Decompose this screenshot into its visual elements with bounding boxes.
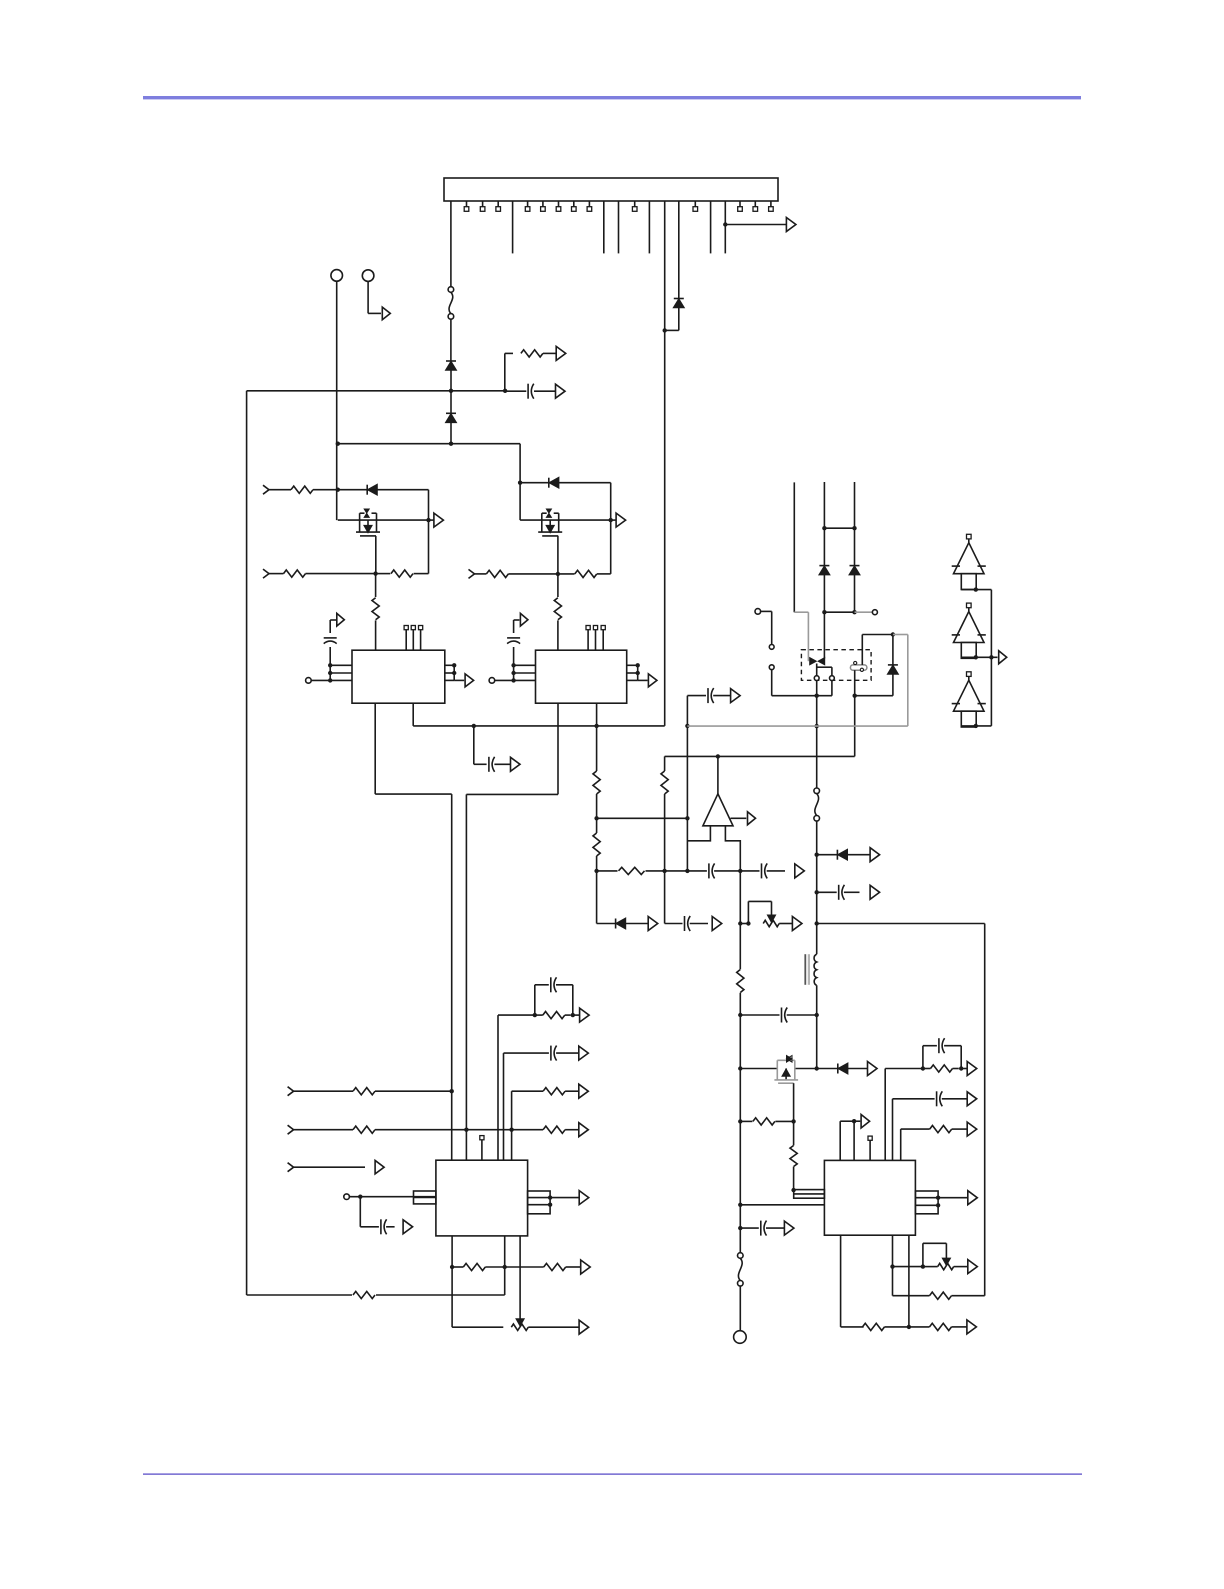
wire bbox=[596, 703, 598, 726]
terminal bbox=[489, 678, 495, 684]
node bbox=[746, 921, 750, 925]
wire bbox=[412, 703, 414, 726]
off-page connector arrow bbox=[556, 346, 566, 360]
wire bbox=[823, 482, 825, 566]
wire bbox=[428, 520, 430, 574]
wire bbox=[450, 422, 452, 443]
wire bbox=[625, 923, 648, 925]
wire bbox=[528, 1326, 579, 1328]
resistor R3 bbox=[291, 486, 313, 493]
off-page connector arrow bbox=[968, 1191, 978, 1205]
fuse F1 bbox=[448, 287, 454, 293]
wire bbox=[376, 573, 391, 575]
wire bbox=[922, 1046, 924, 1069]
wire bbox=[923, 1068, 931, 1070]
node bbox=[636, 663, 640, 667]
capacitor C12 bbox=[936, 1091, 938, 1106]
node bbox=[518, 481, 522, 485]
capacitor C14 bbox=[550, 977, 552, 992]
header rule bbox=[143, 96, 1081, 99]
node bbox=[959, 1066, 963, 1070]
node bbox=[852, 1119, 856, 1123]
buffer U6B bbox=[967, 603, 972, 608]
bus wire bbox=[451, 794, 453, 1160]
off-page connector arrow bbox=[580, 1008, 590, 1022]
wire bbox=[377, 489, 429, 491]
input connector bbox=[469, 569, 475, 578]
node bbox=[373, 571, 377, 575]
off-page connector arrow bbox=[465, 674, 474, 687]
wire bbox=[739, 1286, 741, 1331]
wire bbox=[892, 1235, 894, 1296]
node bbox=[738, 869, 742, 873]
wire bbox=[793, 1121, 795, 1145]
wire bbox=[374, 703, 376, 794]
wire bbox=[596, 726, 598, 771]
wire bbox=[923, 1045, 937, 1047]
off-page connector arrow bbox=[731, 689, 741, 703]
wire bbox=[740, 923, 748, 925]
wire bbox=[294, 1166, 365, 1168]
wire bbox=[558, 573, 575, 575]
wire bbox=[678, 308, 680, 331]
resistor R13 bbox=[661, 771, 668, 794]
node bbox=[716, 754, 720, 758]
resistor R6 bbox=[372, 598, 379, 620]
wire bbox=[854, 1120, 860, 1122]
wire bbox=[520, 482, 549, 484]
node bbox=[852, 526, 856, 530]
diode D8 bbox=[850, 565, 860, 567]
diode D11 bbox=[839, 1064, 848, 1074]
off-page connector arrow bbox=[511, 757, 521, 771]
wire bbox=[817, 923, 985, 925]
off-page connector arrow bbox=[520, 613, 528, 626]
input connector bbox=[288, 1163, 294, 1172]
wire bbox=[338, 519, 429, 521]
wire bbox=[638, 679, 648, 681]
node bbox=[336, 488, 340, 492]
off-page connector arrow bbox=[579, 1320, 589, 1334]
wire bbox=[519, 444, 521, 520]
gray wire bbox=[855, 611, 873, 613]
switch contact bbox=[769, 665, 774, 670]
off-page connector arrow bbox=[967, 1062, 977, 1076]
relay K1 outline bbox=[801, 650, 871, 681]
diode D6 bbox=[616, 919, 625, 929]
IC U4 left pin header bbox=[794, 1190, 825, 1199]
node bbox=[663, 328, 667, 332]
off-page connector arrow bbox=[999, 651, 1007, 664]
wire bbox=[375, 574, 377, 597]
off-page connector arrow bbox=[748, 812, 756, 825]
node bbox=[890, 1264, 894, 1268]
wire bbox=[687, 695, 706, 697]
capacitor C6 bbox=[761, 863, 763, 878]
capacitor C7 bbox=[684, 916, 686, 931]
wire bbox=[824, 527, 854, 529]
wire bbox=[847, 854, 870, 856]
capacitor C1 bbox=[527, 384, 529, 399]
off-page connector arrow bbox=[403, 1220, 413, 1234]
wire bbox=[839, 1121, 841, 1160]
wire bbox=[269, 489, 291, 491]
resistor R30 bbox=[544, 1263, 566, 1270]
wire bbox=[678, 201, 680, 299]
off-page connector arrow bbox=[375, 1160, 384, 1174]
wire bbox=[330, 664, 352, 666]
node bbox=[336, 442, 340, 446]
off-page connector arrow bbox=[784, 1221, 794, 1235]
wire bbox=[473, 726, 475, 764]
wire bbox=[504, 353, 506, 390]
node bbox=[815, 853, 819, 857]
off-page connector arrow bbox=[581, 1260, 591, 1274]
capacitor C15 bbox=[550, 1046, 552, 1061]
wire bbox=[557, 574, 559, 597]
off-page connector arrow bbox=[712, 917, 722, 931]
wire bbox=[519, 1236, 521, 1319]
wire bbox=[535, 984, 549, 986]
resistor R9 bbox=[554, 598, 561, 620]
IC U2 config pins bbox=[586, 626, 605, 651]
wire bbox=[893, 1266, 923, 1268]
wire bbox=[513, 620, 515, 633]
node bbox=[511, 663, 515, 667]
node bbox=[503, 1265, 507, 1269]
diode D7 bbox=[819, 565, 829, 567]
node to off-page arrow bbox=[723, 222, 727, 226]
off-page connector arrow bbox=[434, 513, 444, 527]
wire bbox=[450, 319, 452, 361]
wire bbox=[375, 620, 377, 650]
wire bbox=[559, 482, 611, 484]
node bbox=[358, 1195, 362, 1199]
diode D3 bbox=[368, 485, 377, 495]
node bbox=[921, 1066, 925, 1070]
wire bbox=[452, 1266, 463, 1268]
buffer U6C bbox=[967, 672, 972, 677]
capacitor C10 bbox=[781, 1008, 783, 1023]
wire bbox=[908, 1235, 910, 1327]
node bbox=[815, 890, 819, 894]
op-amp U5 bbox=[703, 794, 733, 826]
wire bbox=[450, 370, 452, 413]
wire bbox=[961, 589, 991, 591]
IC U4 config pin bbox=[868, 1136, 872, 1140]
IC U4 bbox=[824, 1160, 915, 1235]
wire bbox=[740, 1068, 778, 1070]
node bbox=[464, 1128, 468, 1132]
switch contact bbox=[769, 645, 774, 650]
terminal TP3 bbox=[734, 1331, 747, 1344]
node bbox=[571, 1013, 575, 1017]
off-page connector arrow bbox=[616, 513, 626, 527]
resistor R18 bbox=[930, 1126, 952, 1133]
node bbox=[738, 1013, 742, 1017]
wire bbox=[823, 575, 825, 659]
trimmer R31 bbox=[763, 920, 779, 926]
node bbox=[815, 1066, 819, 1070]
node bbox=[853, 694, 857, 698]
node bbox=[685, 816, 689, 820]
wire bbox=[831, 681, 833, 696]
mosfet Q1 bbox=[359, 513, 361, 532]
IC U1 config pins bbox=[404, 626, 423, 651]
off-page connector arrow bbox=[786, 218, 796, 232]
wire bbox=[861, 635, 863, 665]
node bbox=[738, 1119, 742, 1123]
diode D9 bbox=[888, 664, 898, 666]
wire bbox=[349, 1196, 436, 1198]
wire bbox=[892, 673, 894, 696]
wire bbox=[779, 923, 793, 925]
capacitor C3 bbox=[488, 757, 490, 772]
wire bbox=[686, 696, 688, 871]
node bbox=[449, 442, 453, 446]
node bbox=[815, 724, 819, 728]
off-page connector arrow bbox=[968, 1260, 978, 1274]
wire bbox=[816, 681, 818, 788]
wire bbox=[596, 794, 598, 818]
off-page connector arrow bbox=[556, 384, 566, 398]
node bbox=[594, 724, 598, 728]
wire bbox=[511, 1091, 513, 1160]
node bbox=[426, 518, 430, 522]
resistor R25 bbox=[543, 1012, 565, 1019]
resistor R19 bbox=[863, 1323, 885, 1330]
resistor R10 bbox=[593, 771, 600, 794]
resistor R14 bbox=[737, 970, 744, 993]
wire bbox=[855, 695, 893, 697]
IC U4 right pin header bbox=[915, 1191, 938, 1214]
wire bbox=[504, 1236, 506, 1295]
off-page connector arrow bbox=[579, 1191, 589, 1205]
node bbox=[450, 1089, 454, 1093]
wire bbox=[557, 620, 559, 650]
wire bbox=[724, 201, 726, 253]
wire bbox=[952, 1295, 985, 1297]
footer rule bbox=[143, 1473, 1082, 1475]
wire bbox=[596, 818, 598, 833]
wire bbox=[451, 1236, 453, 1327]
resistor R21 bbox=[930, 1292, 952, 1299]
node bbox=[685, 724, 689, 728]
mosfet Q2 bbox=[541, 513, 543, 532]
wire bbox=[664, 756, 666, 771]
off-page connector arrow bbox=[337, 613, 345, 626]
wire bbox=[740, 1227, 759, 1229]
inductor L1 bbox=[814, 954, 817, 985]
wire bbox=[761, 610, 772, 612]
wire bbox=[664, 201, 666, 726]
resistor R26 bbox=[543, 1088, 565, 1095]
wire bbox=[817, 891, 837, 893]
resistor R1 bbox=[521, 350, 543, 357]
IC U3 config pin bbox=[480, 1136, 484, 1140]
wire bbox=[816, 821, 818, 954]
resistor R15 bbox=[753, 1118, 775, 1125]
wire bbox=[938, 1197, 968, 1199]
off-page connector arrow bbox=[967, 1092, 977, 1106]
node bbox=[815, 694, 819, 698]
wire bbox=[596, 871, 598, 924]
gray wire bbox=[794, 611, 808, 613]
wire bbox=[961, 656, 997, 658]
reed sensor F3 bbox=[850, 665, 867, 670]
IC U1 bbox=[352, 650, 445, 703]
terminal bbox=[872, 610, 877, 615]
wire bbox=[503, 1053, 505, 1160]
wire bbox=[450, 201, 452, 287]
node bbox=[815, 1013, 819, 1017]
resistor R2 bbox=[353, 1291, 375, 1298]
wire bbox=[909, 1326, 930, 1328]
node bbox=[738, 1066, 742, 1070]
node bbox=[594, 816, 598, 820]
node bbox=[738, 921, 742, 925]
wire bbox=[817, 854, 838, 856]
off-page connector arrow bbox=[382, 307, 390, 320]
diode D10 bbox=[838, 850, 847, 860]
resistor R5 bbox=[391, 570, 413, 577]
wire bbox=[367, 281, 369, 313]
off-page connector arrow bbox=[792, 917, 802, 931]
diode D5 bbox=[674, 298, 684, 300]
wire bbox=[771, 670, 773, 696]
wire bbox=[445, 664, 454, 666]
wire bbox=[824, 611, 854, 613]
resistor R20 bbox=[930, 1323, 952, 1330]
wire bbox=[336, 281, 338, 520]
wire bbox=[475, 573, 487, 575]
wire bbox=[505, 1266, 544, 1268]
node bbox=[685, 869, 689, 873]
resistor R17 bbox=[931, 1065, 953, 1072]
wire bbox=[664, 871, 666, 924]
trimmer R28 bbox=[511, 1324, 528, 1330]
off-page connector arrow bbox=[967, 1122, 977, 1136]
capacitor C9 bbox=[838, 885, 840, 900]
node bbox=[609, 518, 613, 522]
resistor R27 bbox=[543, 1126, 565, 1133]
node bbox=[594, 869, 598, 873]
capacitor C2 bbox=[324, 637, 337, 639]
wire bbox=[854, 575, 856, 613]
wire bbox=[375, 536, 377, 574]
off-page connector arrow bbox=[648, 674, 657, 687]
wire bbox=[534, 985, 536, 1015]
trimmer R22 bbox=[938, 1263, 954, 1269]
input connector bbox=[263, 569, 269, 578]
wire bbox=[687, 826, 710, 841]
wire bbox=[862, 634, 893, 636]
terminal bbox=[344, 1194, 350, 1200]
input connector bbox=[288, 1125, 294, 1134]
trimmer loop wire bbox=[747, 901, 749, 923]
mosfet Q3 bbox=[774, 1056, 798, 1084]
wire bbox=[247, 390, 506, 392]
resistor R24 bbox=[353, 1126, 375, 1133]
resistor R29 bbox=[463, 1263, 485, 1270]
terminal TP1 bbox=[331, 270, 343, 282]
node bbox=[503, 389, 507, 393]
wire bbox=[497, 1015, 499, 1160]
wire bbox=[573, 1014, 580, 1016]
node bbox=[452, 663, 456, 667]
IC U3 right pin header bbox=[528, 1191, 551, 1214]
wire bbox=[329, 620, 331, 633]
capacitor C13 bbox=[760, 1221, 762, 1236]
resistor R4 bbox=[284, 570, 306, 577]
node bbox=[936, 1196, 940, 1200]
wire bbox=[535, 1014, 543, 1016]
wire bbox=[961, 725, 991, 727]
connector stub wires bbox=[513, 201, 711, 253]
off-page connector arrow bbox=[870, 885, 880, 899]
wire bbox=[793, 1083, 795, 1121]
capacitor C11 bbox=[938, 1038, 940, 1053]
wire bbox=[816, 664, 818, 676]
bus wire bbox=[990, 590, 992, 726]
wire bbox=[884, 1069, 886, 1161]
node bbox=[556, 572, 560, 576]
wire bbox=[246, 391, 248, 1295]
terminal bbox=[306, 678, 312, 684]
relay K1 input arrows bbox=[810, 658, 816, 664]
resistor R8 bbox=[575, 570, 597, 577]
wire bbox=[454, 679, 464, 681]
off-page connector arrow bbox=[868, 1062, 878, 1076]
wire bbox=[512, 1129, 543, 1131]
capacitor C16 bbox=[380, 1219, 382, 1234]
node bbox=[548, 1195, 552, 1199]
node bbox=[791, 1188, 795, 1192]
wire bbox=[550, 1197, 579, 1199]
wire bbox=[514, 664, 536, 666]
diode D1 bbox=[446, 360, 456, 362]
node bbox=[449, 389, 453, 393]
fuse F2 bbox=[738, 1253, 744, 1259]
wire bbox=[817, 1068, 838, 1070]
trimmer loop wire bbox=[922, 1243, 924, 1266]
wire bbox=[687, 870, 707, 872]
diode D2 bbox=[446, 412, 456, 414]
capacitor C4 bbox=[507, 637, 520, 639]
connector J1 pin squares bbox=[464, 201, 773, 211]
wire bbox=[495, 679, 536, 681]
wire bbox=[923, 1266, 938, 1268]
wire bbox=[557, 703, 559, 794]
wire bbox=[294, 1090, 353, 1092]
node bbox=[921, 1264, 925, 1268]
wire bbox=[311, 679, 352, 681]
wire bbox=[739, 871, 741, 969]
node bbox=[974, 655, 978, 659]
node bbox=[815, 921, 819, 925]
wire bbox=[740, 870, 759, 872]
wire bbox=[664, 794, 666, 871]
fuse F4 bbox=[814, 788, 820, 794]
off-page connector arrow bbox=[870, 848, 880, 862]
wire bbox=[739, 993, 741, 1253]
node bbox=[738, 1226, 742, 1230]
wire bbox=[520, 519, 611, 521]
off-page connector arrow bbox=[861, 1114, 870, 1128]
wire bbox=[338, 443, 520, 445]
wire bbox=[854, 670, 856, 756]
terminal TP2 bbox=[362, 270, 374, 282]
